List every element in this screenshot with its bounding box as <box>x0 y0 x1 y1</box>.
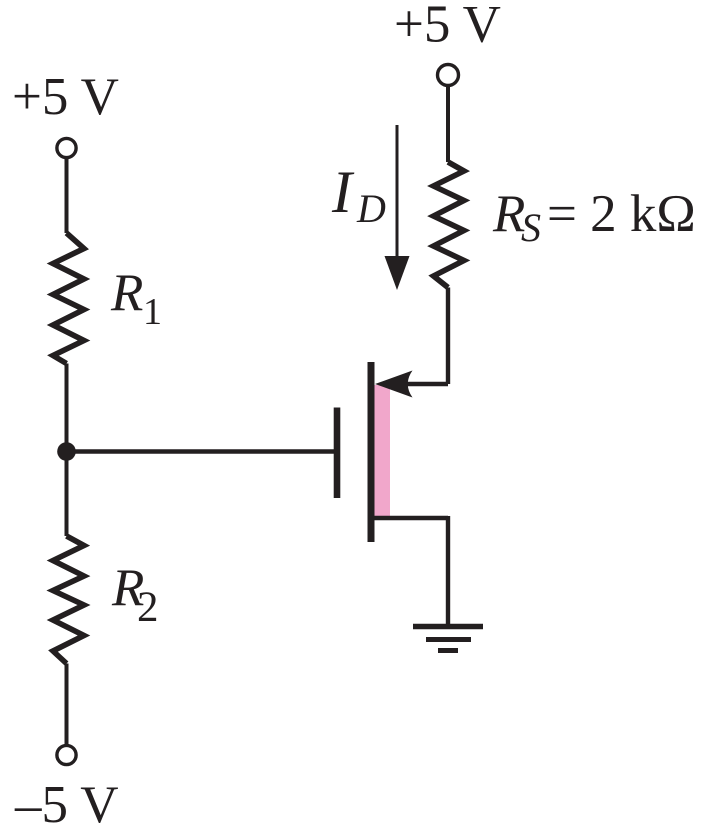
transistor Q1: drain wire <box>374 516 448 520</box>
wire: left terminal to R1 top <box>65 159 69 234</box>
svg-text:D: D <box>356 186 386 231</box>
resistor RS <box>434 162 465 288</box>
terminal (open circle) +5 V left <box>57 138 76 157</box>
wire: drain to ground <box>446 516 450 626</box>
label RS = 2 kOhm <box>492 185 696 250</box>
wire: RS bottom to source wire <box>446 288 450 385</box>
svg-text:+5 V: +5 V <box>12 68 119 126</box>
svg-text:S: S <box>521 205 541 250</box>
transistor Q1: channel bar <box>368 362 375 542</box>
wire: right terminal to RS top <box>446 86 450 162</box>
label R1 <box>110 264 162 333</box>
svg-text:1: 1 <box>143 291 162 333</box>
svg-text:+5 V: +5 V <box>394 0 501 54</box>
ground symbol <box>413 627 483 651</box>
wire: R2 bottom to -5V terminal <box>65 664 69 745</box>
svg-text:2: 2 <box>137 584 159 631</box>
wire: node to R2 top <box>65 452 69 537</box>
svg-text:R: R <box>110 264 143 322</box>
terminal (open circle) +5 V right <box>438 65 459 86</box>
current arrow ID <box>385 125 410 290</box>
transistor Q1: gate bar <box>334 408 341 499</box>
label R2 <box>111 559 159 631</box>
svg-text:I: I <box>331 159 355 225</box>
terminal (open circle) -5 V <box>57 745 76 764</box>
resistor R1 <box>53 233 84 364</box>
wire: R1 bottom to node <box>65 364 69 452</box>
svg-text:= 2 kΩ: = 2 kΩ <box>547 185 696 243</box>
transistor Q1: channel highlight (pink) <box>375 385 391 518</box>
label ID <box>331 159 386 231</box>
wire: node to gate <box>67 449 335 453</box>
transistor Q1: source wire with arrow <box>375 371 448 398</box>
node (junction dot) gate node <box>57 442 76 461</box>
resistor R2 <box>53 536 84 664</box>
svg-text:–5 V: –5 V <box>14 776 119 830</box>
